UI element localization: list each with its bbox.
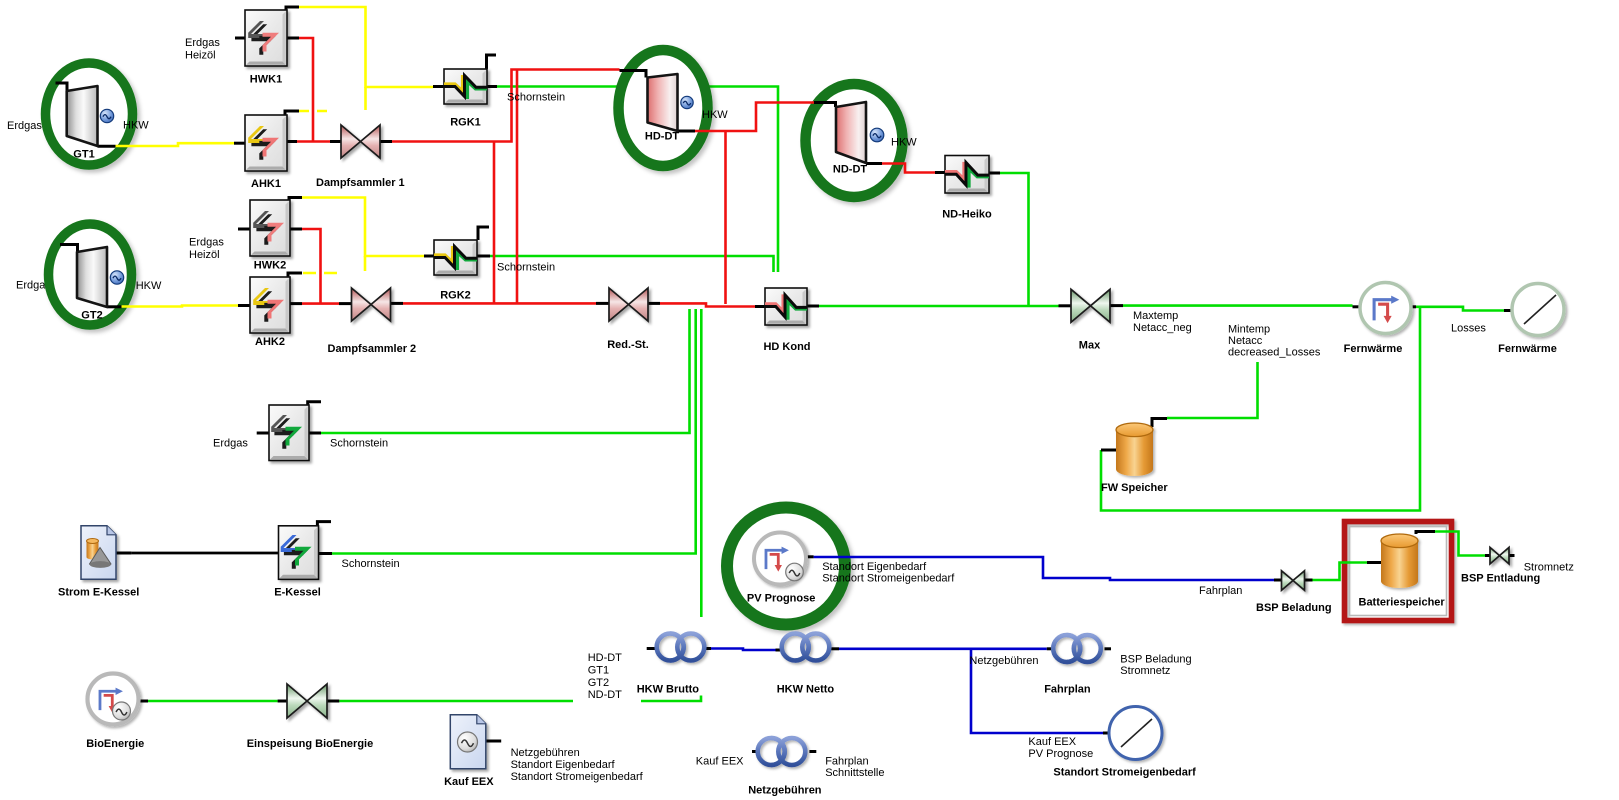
svg-text:HKW: HKW xyxy=(891,137,917,149)
wire ND-Heiko to Max xyxy=(1000,173,1029,306)
node circle BioEnergie xyxy=(88,674,139,725)
pin Fahrplan left xyxy=(1047,647,1054,650)
pin Batteriespeicher left xyxy=(1367,561,1381,564)
generator symbol ND-DT generator xyxy=(870,128,884,142)
wire Max to Fernwaerme xyxy=(1123,304,1353,307)
wire Einspeisung to HKW stub xyxy=(339,700,573,703)
valve Einspeisung BioEnergie xyxy=(287,684,327,718)
svg-text:PV Prognose: PV Prognose xyxy=(747,593,815,605)
svg-text:Schornstein: Schornstein xyxy=(497,262,555,274)
selection frame Batteriespeicher xyxy=(1345,522,1452,621)
svg-text:RGK2: RGK2 xyxy=(440,290,471,302)
pin GT2 outlet xyxy=(107,305,122,308)
icon E-Kessel xyxy=(281,535,312,569)
svg-text:NetzgebührenStandort Eigenbeda: NetzgebührenStandort EigenbedarfStandort… xyxy=(511,747,644,783)
pin HD-DT inlet xyxy=(620,71,647,78)
wire E-Kessel Schornstein xyxy=(332,309,696,554)
node circle Fernwaerme Losses xyxy=(1512,284,1564,336)
wire RedSt to HD Kond xyxy=(660,303,755,306)
svg-text:MaxtempNetacc_neg: MaxtempNetacc_neg xyxy=(1133,310,1192,334)
svg-text:ND-DT: ND-DT xyxy=(833,164,867,176)
icon HWK2 xyxy=(253,211,284,245)
svg-text:ErdgasHeizöl: ErdgasHeizöl xyxy=(189,237,224,262)
svg-text:Dampfsammler 2: Dampfsammler 2 xyxy=(328,343,417,355)
svg-text:Max: Max xyxy=(1079,340,1101,352)
wire Fernwaerme to FW Speicher loop xyxy=(1101,307,1420,511)
icon AHK2 xyxy=(253,288,284,322)
svg-text:Schornstein: Schornstein xyxy=(507,92,565,104)
component box ND-Heiko xyxy=(945,156,989,194)
pin AHK2 right xyxy=(290,302,302,305)
pin AHK1 left xyxy=(234,142,245,145)
pin Einspeisung right xyxy=(327,700,339,703)
storage cylinder Batteriespeicher xyxy=(1381,534,1418,588)
icon Erdgas-Schornstein box xyxy=(271,415,302,449)
wire HKW Brutto stub xyxy=(641,696,701,702)
pin ND-Heiko right xyxy=(989,172,1000,175)
wire HWK1 steam xyxy=(299,38,313,142)
pin Stromeigenbedarf left xyxy=(1103,732,1109,735)
component box RGK2 xyxy=(434,240,477,275)
generator symbol HD-DT generator xyxy=(681,96,693,108)
wire steam drop to bus A xyxy=(493,142,496,304)
svg-text:HKW: HKW xyxy=(702,109,728,121)
pin Fernwaerme left xyxy=(1353,305,1361,308)
wire HKW Brutto to Netto xyxy=(711,649,776,651)
svg-text:Kauf EEX: Kauf EEX xyxy=(696,756,744,768)
svg-text:BSP BeladungStromnetz: BSP BeladungStromnetz xyxy=(1120,654,1191,678)
svg-text:RGK1: RGK1 xyxy=(450,117,481,129)
svg-text:Fahrplan: Fahrplan xyxy=(1044,684,1091,696)
pin HD Kond left xyxy=(755,305,765,308)
svg-text:ND-Heiko: ND-Heiko xyxy=(942,209,992,221)
pin AHK2 left xyxy=(238,304,250,307)
wire HWK1 fuel bus xyxy=(299,7,433,87)
turbine GT1 xyxy=(67,86,98,146)
wire HWK2 fuel bus xyxy=(302,198,424,257)
highlight ring HD-DT ring xyxy=(619,50,708,166)
transformer HKW Netto xyxy=(782,634,830,661)
pin HKW Brutto right xyxy=(706,647,712,650)
component box HD Kond xyxy=(765,288,807,325)
pin Dampfsammler2 right xyxy=(390,302,403,305)
wire AHK2 fuel dashed xyxy=(303,272,341,275)
pin Fernwaerme right xyxy=(1412,305,1417,308)
pin Fernwaerme2 left xyxy=(1504,309,1512,312)
pin HKW Netto left xyxy=(776,649,783,652)
wire Dampfsammler2 to RedSt xyxy=(403,302,596,305)
svg-text:Strom E-Kessel: Strom E-Kessel xyxy=(58,587,139,599)
pin Dampfsammler1 right xyxy=(380,140,392,143)
pin Strom E-Kessel right xyxy=(116,552,132,555)
svg-text:Netzgebühren: Netzgebühren xyxy=(969,655,1038,667)
transformer Netzgebuehren xyxy=(758,738,806,765)
wire PV Prognose to BSP Beladung xyxy=(814,557,1274,580)
pin Netzgebuehren left xyxy=(752,750,758,753)
svg-text:HKW: HKW xyxy=(136,280,162,292)
wire steam drop to bus B xyxy=(516,70,519,304)
svg-text:ErdgasHeizöl: ErdgasHeizöl xyxy=(185,37,220,62)
pin ND-Heiko left xyxy=(935,171,945,174)
wire FW Speicher Mintemp stub xyxy=(1167,362,1258,418)
wire AHK1 fuel dashed xyxy=(299,110,332,113)
component box HWK2 xyxy=(250,200,290,256)
pin RGK2 left xyxy=(424,255,434,258)
pin Dampfsammler1 left xyxy=(330,140,341,143)
svg-text:AHK2: AHK2 xyxy=(255,336,285,348)
pin HWK2 right xyxy=(290,228,302,231)
svg-text:Fahrplan: Fahrplan xyxy=(1199,585,1242,597)
icon HD Kond xyxy=(765,294,807,319)
wire AHK2 to Dampfsammler2 xyxy=(302,302,339,305)
svg-text:FahrplanSchnittstelle: FahrplanSchnittstelle xyxy=(825,756,884,780)
icon Stromeigenbedarf slash xyxy=(1121,719,1152,747)
transformer Fahrplan xyxy=(1053,635,1101,662)
svg-text:Einspeisung BioEnergie: Einspeisung BioEnergie xyxy=(247,738,374,750)
pin Erdgas box flue stub xyxy=(308,402,321,405)
wire BioEnergie to Einspeisung xyxy=(148,700,278,703)
svg-text:HKW Netto: HKW Netto xyxy=(777,684,835,696)
pin BSP Entladung right xyxy=(1509,554,1515,557)
wire Schornstein net RGK2 xyxy=(490,256,774,272)
svg-text:HKW: HKW xyxy=(123,120,149,132)
pin Batteriespeicher top xyxy=(1416,532,1435,535)
component box AHK1 xyxy=(245,115,287,171)
pin AHK2 top stub xyxy=(288,273,302,277)
generator symbol PV Prognose generator xyxy=(786,563,804,581)
icon RGK2 xyxy=(434,246,477,270)
pin BSP Entladung left xyxy=(1485,554,1491,557)
valve Red.-St. xyxy=(609,288,648,321)
svg-text:Batteriespeicher: Batteriespeicher xyxy=(1359,597,1446,609)
wire BSP Beladung to Batteriespeicher xyxy=(1313,563,1368,581)
svg-text:Kauf EEX: Kauf EEX xyxy=(444,776,494,788)
svg-text:GT2: GT2 xyxy=(81,310,102,322)
pin Erdgas box right xyxy=(309,432,321,435)
transformer HKW Brutto xyxy=(657,634,705,661)
wire HWK2 steam xyxy=(302,229,321,304)
svg-text:MintempNetaccdecreased_Losses: MintempNetaccdecreased_Losses xyxy=(1228,324,1321,359)
pin Einspeisung left xyxy=(278,700,287,703)
source box Strom E-Kessel xyxy=(81,526,116,580)
turbine HD-DT xyxy=(648,74,678,131)
pin RGK1 left xyxy=(433,85,444,88)
wire Schornstein net RGK1 xyxy=(497,87,778,273)
pin RGK2 right xyxy=(477,255,490,258)
node circle PV Prognose xyxy=(754,533,806,585)
pin AHK1 top stub xyxy=(285,111,299,115)
svg-text:Erdgas: Erdgas xyxy=(213,438,248,450)
icon Fernwaerme losses slash xyxy=(1524,295,1556,324)
pin Netzgebuehren right xyxy=(809,750,816,753)
svg-text:HWK1: HWK1 xyxy=(250,74,282,86)
wire GT1 to AHK1 xyxy=(116,143,235,146)
pin ND-DT inlet xyxy=(814,103,836,108)
svg-text:Dampfsammler 1: Dampfsammler 1 xyxy=(316,177,405,189)
icon PV Prognose arrows xyxy=(766,547,789,572)
svg-text:Standort Stromeigenbedarf: Standort Stromeigenbedarf xyxy=(1053,767,1196,779)
pin Max right xyxy=(1110,304,1123,307)
svg-text:Stromnetz: Stromnetz xyxy=(1524,562,1574,574)
valve BSP Beladung xyxy=(1282,571,1305,591)
wire Netto to Stromeigenbedarf xyxy=(971,649,1103,733)
generator symbol GT2 generator xyxy=(110,271,123,284)
turbine ND-DT xyxy=(836,102,866,163)
pin HWK1 flue stub xyxy=(286,7,299,10)
icon AHK1 xyxy=(248,126,279,160)
icon ND-Heiko xyxy=(945,162,989,188)
pin GT1 inlet xyxy=(56,83,68,91)
svg-text:Kauf EEXPV Prognose: Kauf EEXPV Prognose xyxy=(1028,736,1093,760)
pin Max left xyxy=(1059,304,1072,307)
wire Erdgas box Schornstein xyxy=(321,309,690,433)
pin HWK2 flue stub xyxy=(289,198,302,201)
wire Fernwaerme to Losses xyxy=(1420,307,1504,311)
svg-text:BioEnergie: BioEnergie xyxy=(86,738,144,750)
icon HWK1 xyxy=(248,21,279,55)
node circle Standort Stromeigenbedarf xyxy=(1109,707,1162,760)
svg-text:Fernwärme: Fernwärme xyxy=(1498,343,1557,355)
pin RGK2 top stub xyxy=(478,227,489,240)
pin GT2 inlet xyxy=(60,245,78,253)
pin FW Speicher left xyxy=(1101,449,1116,452)
generator symbol Kauf EEX symbol xyxy=(458,732,478,752)
svg-text:Fernwärme: Fernwärme xyxy=(1344,343,1403,355)
valve Dampfsammler 2 xyxy=(352,288,391,321)
component box E-Kessel xyxy=(279,526,319,580)
generator symbol GT1 generator xyxy=(100,109,113,122)
component box RGK1 xyxy=(444,69,487,104)
pin BSP Beladung right xyxy=(1303,579,1313,582)
pin RGK1 right xyxy=(487,85,497,88)
pin RGK1 top stub xyxy=(487,55,497,69)
pin HWK2 left xyxy=(238,228,250,231)
pin HWK1 right xyxy=(287,37,299,40)
wire HD-DT steam out xyxy=(695,103,814,132)
pin Erdgas box left xyxy=(257,432,269,435)
wire Batteriespeicher to BSP Entladung xyxy=(1435,532,1485,556)
svg-text:E-Kessel: E-Kessel xyxy=(274,587,320,599)
pin BSP Beladung left xyxy=(1274,579,1283,582)
pin BioEnergie right xyxy=(139,700,148,703)
pin GT1 outlet xyxy=(98,145,116,148)
svg-text:BSP Beladung: BSP Beladung xyxy=(1256,602,1332,614)
svg-text:Schornstein: Schornstein xyxy=(342,558,400,570)
pin RedSt left xyxy=(596,302,609,305)
svg-text:HD Kond: HD Kond xyxy=(763,341,810,353)
node circle Fernwaerme xyxy=(1360,283,1411,334)
svg-text:Red.-St.: Red.-St. xyxy=(607,339,649,351)
wire HD-DT exhaust drop xyxy=(724,131,727,304)
pin HD Kond right xyxy=(807,305,819,308)
valve Max xyxy=(1071,289,1110,322)
source box Kauf EEX xyxy=(450,715,486,769)
wire generator bus down xyxy=(700,309,703,617)
component box AHK2 xyxy=(250,277,290,333)
pin HD-DT outlet xyxy=(678,130,696,133)
svg-text:Standort EigenbedarfStandort S: Standort EigenbedarfStandort Stromeigenb… xyxy=(822,561,955,585)
svg-text:HD-DT: HD-DT xyxy=(645,131,679,143)
pin Kauf EEX right xyxy=(486,740,501,743)
highlight ring GT1 ring xyxy=(46,63,133,165)
pin ND-DT outlet xyxy=(866,162,882,165)
pin E-Kessel flue stub xyxy=(317,522,331,526)
pin HKW Netto right xyxy=(831,647,839,650)
pin HWK1 left xyxy=(235,37,245,40)
wire HD Kond to Max xyxy=(819,305,1059,308)
pin Fahrplan right xyxy=(1105,647,1112,650)
svg-text:HWK2: HWK2 xyxy=(254,260,286,272)
wire Strom E-Kessel supply xyxy=(131,552,278,555)
svg-text:GT1: GT1 xyxy=(73,149,94,161)
pin HKW Brutto left xyxy=(647,647,657,650)
highlight ring GT2 ring xyxy=(49,224,132,325)
svg-text:HKW Brutto: HKW Brutto xyxy=(637,684,700,696)
pin RedSt right xyxy=(648,302,660,305)
svg-text:AHK1: AHK1 xyxy=(251,178,281,190)
storage cylinder FW Speicher xyxy=(1116,423,1153,476)
icon Fernwaerme arrows xyxy=(1374,296,1399,323)
svg-text:FW Speicher: FW Speicher xyxy=(1101,482,1168,494)
highlight ring ND-DT ring xyxy=(806,84,903,197)
turbine GT2 xyxy=(77,247,107,307)
wire fuel stub 1 xyxy=(364,87,367,110)
valve Dampfsammler 1 xyxy=(341,125,380,158)
icon Strom E-Kessel fuel xyxy=(87,539,112,568)
highlight ring PV Prognose ring xyxy=(727,508,845,625)
svg-text:BSP Entladung: BSP Entladung xyxy=(1461,573,1540,585)
svg-text:Schornstein: Schornstein xyxy=(330,438,388,450)
component box HWK1 xyxy=(245,10,287,66)
pin Dampfsammler2 left xyxy=(339,302,352,305)
component box Erdgas-Schornstein box xyxy=(269,405,309,461)
wire HKW Netto to Fahrplan xyxy=(839,647,1047,650)
pin PV Prognose right xyxy=(806,555,813,558)
svg-text:Losses: Losses xyxy=(1451,323,1486,335)
generator symbol BioEnergie generator xyxy=(113,702,131,720)
svg-text:Erdgas: Erdgas xyxy=(7,120,42,132)
svg-text:HD-DTGT1GT2ND-DT: HD-DTGT1GT2ND-DT xyxy=(588,652,622,701)
wire GT2 to AHK2 xyxy=(122,306,239,307)
wire AHK1 to Dampfsammler1 xyxy=(297,140,330,143)
pin E-Kessel right xyxy=(318,552,332,555)
icon BioEnergie arrows xyxy=(100,688,123,713)
wire fuel stub 2 xyxy=(364,256,367,271)
pin FW Speicher top xyxy=(1152,419,1167,428)
wire Dampfsammler1 out xyxy=(392,70,620,142)
svg-text:Netzgebühren: Netzgebühren xyxy=(748,785,822,797)
wire ND-DT steam out xyxy=(882,164,935,173)
valve BSP Entladung xyxy=(1490,547,1509,564)
pin AHK1 right xyxy=(287,140,297,143)
icon RGK1 xyxy=(444,75,487,99)
